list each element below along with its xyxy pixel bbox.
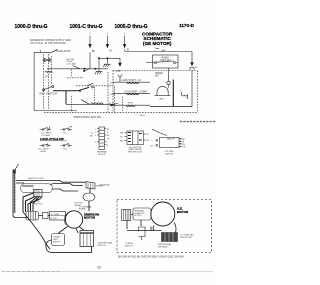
wire motor to lower box	[58, 227, 68, 234]
svg-text:SOL: SOL	[45, 76, 49, 78]
connector wires	[39, 215, 50, 217]
svg-text:1170-D: 1170-D	[179, 23, 194, 28]
press switch bracket	[139, 227, 146, 240]
relay box pins	[124, 133, 146, 141]
svg-text:SW: SW	[90, 135, 93, 137]
plug P5 receptacle	[118, 75, 122, 83]
plug P5 drop from junction	[119, 58, 121, 62]
overload protector CB	[182, 92, 188, 99]
dashed vertical wire A	[43, 54, 45, 109]
rail104 ticks	[110, 103, 113, 105]
dashed rail y85.8	[76, 85, 113, 87]
contact pair K1	[44, 58, 50, 62]
svg-text:WIRING: WIRING	[96, 186, 104, 188]
lower loop from box	[46, 240, 92, 253]
ground G1	[103, 64, 110, 67]
bottom rail	[150, 106, 192, 108]
contact circles on rail	[84, 68, 85, 69]
svg-text:L-BK: L-BK	[194, 67, 199, 69]
tick on box top	[40, 50, 42, 52]
legend switch NC	[61, 127, 73, 130]
svg-text:SERVICE CORD: SERVICE CORD	[28, 178, 44, 180]
svg-text:*RAM DOWN LIMIT SW: *RAM DOWN LIMIT SW	[73, 115, 101, 119]
svg-text:MOTOR: MOTOR	[135, 215, 143, 217]
dashed vertical x108	[107, 72, 109, 112]
svg-text:10: 10	[97, 266, 101, 270]
dashed vertical x71.5	[71, 70, 73, 113]
svg-text:1: 1	[95, 129, 96, 131]
svg-text:RUN: RUN	[128, 102, 133, 104]
svg-text:COIL (BK): COIL (BK)	[67, 63, 77, 65]
svg-text:SWITCH: SWITCH	[53, 241, 61, 243]
terminal boxes row	[26, 212, 39, 221]
plug P3 arrow	[123, 44, 126, 48]
right schematic top rail	[125, 50, 192, 52]
dashed vertical x51.3	[50, 56, 52, 84]
svg-text:(GE MOTOR): (GE MOTOR)	[143, 41, 172, 46]
svg-text:PROTECTOR: PROTECTOR	[180, 237, 192, 239]
svg-text:BLOCK: BLOCK	[98, 154, 106, 156]
plug P4 receptacle	[190, 68, 194, 71]
svg-text:1 BU: 1 BU	[110, 94, 115, 96]
svg-text:SWITCH: SWITCH	[34, 203, 43, 205]
svg-text:SWITCH: SWITCH	[125, 245, 133, 247]
svg-text:SW RELAY: SW RELAY	[158, 245, 168, 248]
terminal block strip	[99, 127, 105, 150]
ground G2 wire	[98, 58, 100, 71]
switch blade on key wire	[79, 90, 81, 92]
dashed vertical x94.7	[94, 87, 96, 104]
thick vertical bus	[172, 80, 174, 107]
rams limit sw box	[153, 55, 179, 68]
motor dome base	[155, 95, 171, 97]
dashed vertical wire B	[48, 54, 50, 109]
svg-text:RAM'S: RAM'S	[162, 56, 170, 59]
plug P2 arrow	[106, 44, 109, 48]
winding row 3 coil	[126, 105, 135, 107]
svg-text:PER SECTION: PER SECTION	[128, 152, 142, 154]
wire motor to centrifugal	[76, 227, 84, 234]
third wire run	[16, 183, 83, 191]
right vertical wire	[191, 52, 193, 63]
wire down from relay	[89, 189, 91, 193]
stray dashed bar right	[180, 121, 216, 123]
svg-text:BLOCK: BLOCK	[51, 218, 58, 220]
power cord rungs	[13, 175, 15, 211]
svg-text:LOAD-CYCLE SW: LOAD-CYCLE SW	[40, 137, 64, 141]
svg-text:CCW START - COMM: CCW START - COMM	[124, 90, 147, 93]
dashed bottom rail	[44, 111, 198, 113]
rail y68.8	[47, 68, 108, 70]
dashed vertical left border	[112, 71, 114, 113]
dashed enclosure box	[117, 200, 212, 253]
svg-text:1001-C thru-G: 1001-C thru-G	[69, 24, 102, 30]
plug P1 arrow	[89, 44, 92, 48]
svg-text:OF CYCLE - IN TOP POSITION: OF CYCLE - IN TOP POSITION	[30, 42, 66, 45]
coil L2	[91, 103, 104, 105]
second wire run	[22, 185, 34, 187]
wire relay to motor	[88, 201, 90, 211]
svg-text:RAM-UP: RAM-UP	[167, 138, 175, 141]
rams limit sw contacts	[155, 62, 157, 64]
plug P1 line	[89, 33, 91, 44]
left loop wire	[23, 212, 50, 249]
ram up switch blade top	[52, 49, 58, 52]
svg-text:BK-R: BK-R	[140, 115, 145, 117]
legend switch NO	[61, 143, 73, 146]
svg-text:2: 2	[95, 132, 96, 134]
motor relay oval	[83, 193, 95, 201]
switch blade on rail	[87, 83, 93, 86]
dashed mid stub y77.8	[67, 77, 83, 79]
svg-text:BK: BK	[92, 50, 96, 53]
svg-text:MOTOR: MOTOR	[84, 216, 96, 220]
plug P2 line	[106, 33, 108, 44]
thick key wire	[53, 87, 89, 90]
node N1	[167, 81, 170, 84]
svg-text:OPEN: OPEN	[40, 151, 46, 153]
terminal board label box	[133, 208, 151, 220]
wire bundle from key switch	[23, 193, 42, 212]
plug1 drop wire	[89, 52, 91, 69]
power cord	[13, 174, 15, 216]
relay box legend	[127, 131, 144, 145]
relay switch blade	[73, 66, 81, 69]
coil L1	[45, 71, 52, 72]
ground G2	[95, 71, 102, 74]
winding row 1 coil	[127, 82, 139, 84]
svg-text:KEY SWITCH: KEY SWITCH	[40, 91, 57, 95]
GE motor circle	[151, 202, 175, 226]
svg-text:(BU): (BU)	[160, 99, 165, 101]
plug P3 line	[124, 33, 126, 44]
plug P5 arrow	[119, 63, 122, 67]
key switch body	[34, 189, 43, 196]
wires	[127, 215, 176, 233]
top wire run	[16, 181, 86, 183]
legend switch NO held closed	[40, 127, 52, 130]
ram up limit sw box	[52, 234, 65, 246]
switch onto rail104	[81, 100, 90, 105]
ground G1 wire	[106, 58, 108, 64]
svg-text:1000-D thru-G: 1000-D thru-G	[14, 24, 47, 30]
svg-text:MOTOR: MOTOR	[177, 210, 189, 214]
dashed vertical x114.6	[114, 86, 116, 112]
winding row 1 line	[113, 81, 150, 83]
power plug	[15, 164, 19, 170]
svg-text:2W: 2W	[120, 136, 123, 138]
relay block dark	[162, 233, 178, 242]
svg-text:1005-D thru-G: 1005-D thru-G	[114, 24, 147, 30]
dashed vertical right border	[197, 71, 199, 113]
svg-text:RAM-UP SW: RAM-UP SW	[57, 50, 72, 53]
rail tick label BK	[161, 50, 163, 52]
plug P4 arrow	[191, 62, 194, 66]
dashed rail y70.5	[113, 70, 198, 72]
winding row 2 line	[113, 92, 150, 94]
connector cylinder	[122, 210, 131, 221]
harness outline	[21, 184, 53, 193]
dashed vertical x122.7	[122, 97, 124, 113]
svg-text:TO TERM: TO TERM	[51, 214, 60, 216]
junction wire y58	[99, 57, 120, 59]
node N1 feed	[168, 68, 170, 88]
svg-text:SWITCH: SWITCH	[98, 245, 107, 247]
right vertical wire lower	[191, 70, 193, 107]
svg-text:3: 3	[95, 135, 96, 137]
svg-text:1 BK: 1 BK	[110, 83, 115, 85]
winding row 3 line	[110, 104, 150, 106]
micro switch pins	[179, 139, 182, 147]
micro switch lever	[152, 129, 167, 136]
plug1 contact blade	[85, 69, 91, 71]
terminal block stubs	[97, 129, 106, 145]
emerson motor circle	[65, 211, 82, 228]
svg-text:BK-1954 W-2051 BU-2055 OR-2: BK-1954 W-2051 BU-2055 OR-2058 Y-2060 R-…	[118, 256, 184, 259]
vertical wire x66	[65, 91, 67, 105]
rail y104.3	[66, 103, 113, 105]
legend switch NC held open	[40, 144, 52, 146]
svg-text:SWITCH: SWITCH	[165, 153, 174, 155]
winding row 3 switch	[112, 103, 120, 105]
centrifugal switch box	[80, 231, 94, 247]
winding row 2 coil	[127, 93, 139, 95]
svg-text:4: 4	[95, 142, 96, 144]
svg-text:N.C.: N.C.	[64, 133, 69, 135]
footer rule	[2, 271, 213, 273]
micro switch body	[160, 138, 180, 148]
cord bottom run	[13, 215, 27, 218]
left schematic outer box left side	[34, 52, 77, 110]
key switch blade	[44, 86, 53, 90]
motor dome arc	[157, 86, 168, 95]
svg-text:N.O.: N.O.	[64, 149, 69, 151]
svg-text:BOARD: BOARD	[79, 208, 86, 211]
cw relay component	[86, 182, 95, 190]
